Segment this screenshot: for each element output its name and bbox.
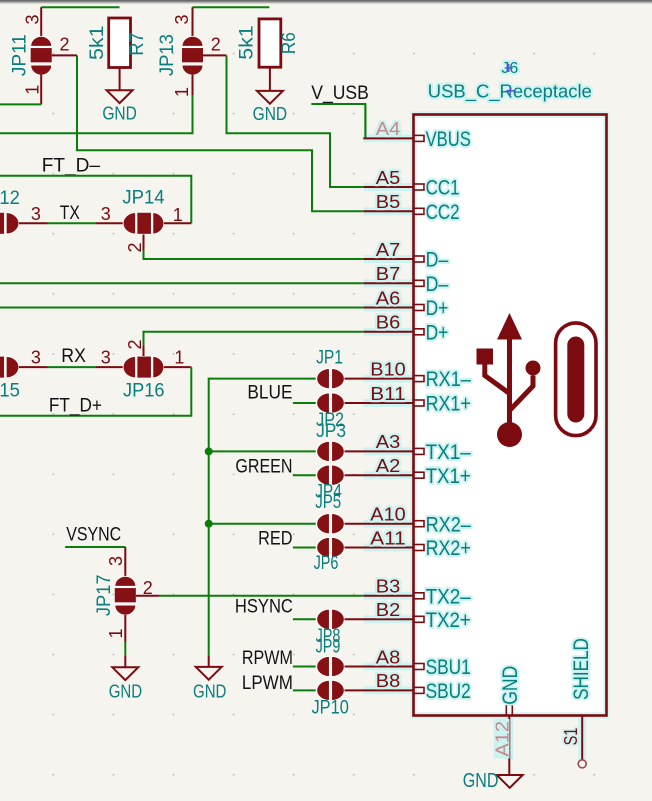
svg-text:TX: TX <box>60 202 80 224</box>
svg-text:RX: RX <box>61 345 86 367</box>
junction <box>205 447 213 455</box>
USB logo trident <box>485 334 533 424</box>
wire JP17 pin1 to GND <box>124 642 126 656</box>
unconnected end circle of S1 <box>578 760 586 768</box>
wire JP13 pin1 to left <box>0 95 193 133</box>
svg-text:2: 2 <box>211 35 221 55</box>
svg-text:A11: A11 <box>370 528 405 548</box>
pin A11 (RX2+) of J6 <box>345 547 414 549</box>
svg-text:CC2: CC2 <box>426 200 460 224</box>
wire V_USB corner redraw <box>364 104 366 138</box>
pin 3 of JP14 <box>96 222 123 224</box>
svg-text:5k1: 5k1 <box>236 25 257 59</box>
svg-text:GND: GND <box>102 103 137 123</box>
pin 3 of JP11 <box>40 7 42 37</box>
svg-text:BLUE: BLUE <box>247 382 292 404</box>
svg-text:3: 3 <box>31 204 41 224</box>
svg-text:1: 1 <box>23 85 43 95</box>
pin 1 of JP13 <box>192 75 194 95</box>
pin 3 of JP16 <box>96 366 123 368</box>
svg-text:JP10: JP10 <box>312 698 349 719</box>
svg-text:2: 2 <box>143 578 153 598</box>
svg-text:CC1: CC1 <box>426 176 460 200</box>
solder jumper JP6 <box>317 537 345 557</box>
wire R6 to GND <box>269 67 271 91</box>
pin 2 of JP14 <box>143 235 145 251</box>
solder jumper JP4 <box>317 465 345 485</box>
wire JP11 pin1 to left <box>0 103 41 105</box>
svg-text:1: 1 <box>173 205 183 225</box>
pin A5 (CC1) of J6 <box>363 186 413 188</box>
svg-text:GND: GND <box>193 682 226 702</box>
wire to D- B7 <box>0 282 363 284</box>
wire JP13 pin3 to R6 top <box>193 6 270 8</box>
solder jumper JP12 (partial at edge) <box>0 212 19 234</box>
anchor cross value <box>506 87 514 95</box>
wire FT_D- to JP14 pin1 <box>0 176 191 224</box>
svg-text:JP6: JP6 <box>314 553 339 574</box>
pin 1 of JP16 <box>164 366 192 368</box>
wire BLUE to JP2 <box>293 402 316 404</box>
wire V_USB to VBUS pin <box>311 104 365 138</box>
solder jumper JP17 <box>114 576 136 615</box>
solder jumper JP5 <box>317 514 345 534</box>
svg-text:TX1–: TX1– <box>426 440 471 464</box>
svg-text:RX2+: RX2+ <box>426 536 471 560</box>
wire VSYNC to JP17 <box>65 546 125 548</box>
svg-text:RX1–: RX1– <box>426 367 471 391</box>
svg-text:JP17: JP17 <box>94 575 115 617</box>
svg-text:JP15: JP15 <box>0 381 20 402</box>
wire JP11 pin3 to R7 top <box>41 6 119 8</box>
pin 2 of JP13 <box>203 54 227 56</box>
svg-text:A3: A3 <box>376 432 401 452</box>
svg-text:GND: GND <box>253 104 288 124</box>
ground stub <box>124 656 126 667</box>
pin B8 (SBU2) of J6 <box>345 689 414 691</box>
svg-text:A10: A10 <box>370 505 405 525</box>
svg-text:A2: A2 <box>376 456 401 476</box>
solder jumper JP2 <box>317 393 345 413</box>
svg-text:HSYNC: HSYNC <box>235 596 293 618</box>
pin A3 (TX1–) of J6 <box>345 450 414 452</box>
solder jumper JP11 <box>30 36 52 75</box>
svg-text:3: 3 <box>31 348 41 368</box>
wire JP17 pin2 to TX2- <box>160 595 364 597</box>
svg-text:2: 2 <box>125 339 145 349</box>
svg-text:A6: A6 <box>376 288 401 308</box>
svg-text:3: 3 <box>172 14 192 24</box>
svg-text:JP13: JP13 <box>157 34 178 76</box>
wire GREEN to JP4 <box>293 474 316 476</box>
svg-text:JP9: JP9 <box>316 636 341 657</box>
pin 3 of JP12 <box>19 222 48 224</box>
solder jumper JP10 <box>317 680 345 700</box>
junction <box>205 520 213 528</box>
pin S1 (SHIELD) of J6 <box>578 716 586 760</box>
solder jumper JP1 <box>317 368 345 388</box>
svg-text:A8: A8 <box>376 647 401 667</box>
svg-text:JP11: JP11 <box>10 34 31 76</box>
connector J6 body fill <box>414 115 607 716</box>
svg-text:SBU1: SBU1 <box>426 655 471 679</box>
pin 3 of JP17 <box>124 547 126 577</box>
svg-text:RPWM: RPWM <box>242 647 293 669</box>
svg-text:JP12: JP12 <box>0 188 20 209</box>
wire RED to JP6 <box>293 547 316 549</box>
svg-text:SHIELD: SHIELD <box>569 638 593 700</box>
pin A4 (VBUS) of J6 <box>363 137 413 139</box>
svg-text:B3: B3 <box>376 577 401 597</box>
svg-text:D–: D– <box>426 272 449 296</box>
pin B10 (RX1–) of J6 <box>345 378 414 380</box>
ground stub <box>208 656 210 667</box>
wire RX <box>48 366 96 368</box>
svg-text:A12: A12 <box>492 721 512 757</box>
svg-text:B11: B11 <box>370 384 405 404</box>
solder jumper JP13 <box>182 36 204 75</box>
connector J6 body outline <box>414 115 607 716</box>
pin B6 (D+) of J6 <box>363 331 413 333</box>
svg-text:GREEN: GREEN <box>235 456 292 478</box>
wire bus to JP3 <box>209 450 316 452</box>
pin A10 (RX2–) of J6 <box>345 523 414 525</box>
wire HSYNC to JP8 <box>293 618 316 620</box>
svg-text:TX2–: TX2– <box>426 584 471 608</box>
solder jumper JP14 <box>123 212 164 234</box>
resistor R7 <box>109 18 131 68</box>
svg-text:B10: B10 <box>370 359 405 379</box>
wire TX <box>48 222 96 224</box>
solder jumper JP16 <box>123 356 164 378</box>
pin 1 of JP14 <box>164 222 192 224</box>
ground below JP17 <box>112 667 138 680</box>
wire JP11 pin2 to CC2 <box>77 55 363 211</box>
svg-text:TX2+: TX2+ <box>426 608 471 632</box>
pin number A12 highlight box <box>494 719 510 759</box>
pin A2 (TX1+) of J6 <box>345 474 414 476</box>
svg-text:JP5: JP5 <box>315 492 341 513</box>
wire JP14 pin2 to D- A7 <box>144 250 364 259</box>
svg-text:V_USB: V_USB <box>311 82 369 104</box>
wire bus to JP5 <box>209 523 316 525</box>
solder jumper JP3 <box>317 441 345 461</box>
svg-text:SBU2: SBU2 <box>426 679 471 703</box>
pin 2 of JP17 <box>136 595 160 597</box>
ground below R6 <box>257 91 283 104</box>
pin A6 (D+) of J6 <box>363 307 413 309</box>
svg-text:3: 3 <box>106 556 126 566</box>
pin 1 of JP11 <box>40 75 42 105</box>
svg-text:RX2–: RX2– <box>426 512 471 536</box>
svg-text:TX1+: TX1+ <box>426 464 471 488</box>
svg-text:FT_D+: FT_D+ <box>49 394 102 416</box>
svg-text:1: 1 <box>106 628 126 638</box>
svg-text:A7: A7 <box>376 240 401 260</box>
svg-text:GND: GND <box>463 770 499 792</box>
svg-text:5k1: 5k1 <box>87 25 108 60</box>
ground below R7 <box>107 90 133 103</box>
svg-text:B8: B8 <box>376 671 401 691</box>
pin 2 of JP16 <box>143 346 145 356</box>
svg-text:1: 1 <box>174 347 184 367</box>
wire LPWM to JP10 <box>293 689 316 691</box>
svg-text:RX1+: RX1+ <box>426 392 471 416</box>
pin B5 (CC2) of J6 <box>363 210 413 212</box>
wire JP13 pin2 to CC1 <box>227 55 364 187</box>
wire to D+ A6 <box>0 307 363 309</box>
pin 3 of JP15 <box>19 366 48 368</box>
svg-text:GND: GND <box>498 666 522 705</box>
pin B7 (D–) of J6 <box>363 282 413 284</box>
svg-text:VSYNC: VSYNC <box>66 524 121 546</box>
pin B11 (RX1+) of J6 <box>345 402 414 404</box>
svg-text:FT_D–: FT_D– <box>42 155 100 177</box>
pin 3 of JP13 <box>192 7 194 37</box>
solder jumper JP15 (partial at edge) <box>0 356 19 378</box>
ground below A12 pin <box>497 775 523 788</box>
wire RPWM to JP9 <box>293 666 316 668</box>
svg-text:2: 2 <box>125 242 145 252</box>
solder jumper JP9 <box>317 656 345 676</box>
solder jumper JP8 <box>317 609 345 629</box>
svg-text:GND: GND <box>109 682 142 702</box>
svg-text:LPWM: LPWM <box>242 672 293 694</box>
svg-text:3: 3 <box>23 14 43 24</box>
pin A12 (GND) of J6 <box>508 716 510 776</box>
pin A7 (D–) of J6 <box>363 258 413 260</box>
svg-text:RED: RED <box>258 528 292 550</box>
svg-text:D+: D+ <box>426 296 449 320</box>
anchor cross J6 <box>505 64 513 72</box>
pin 1 of JP17 <box>124 615 126 642</box>
svg-text:B6: B6 <box>376 313 401 333</box>
wire JP16 pin2 to D+ B6 <box>144 332 364 346</box>
highlight halo of J6 body <box>414 115 607 716</box>
svg-text:R7: R7 <box>127 32 148 56</box>
wire GND bus <box>209 379 316 656</box>
svg-text:D–: D– <box>426 248 449 272</box>
svg-text:JP16: JP16 <box>123 381 165 402</box>
svg-text:1: 1 <box>172 87 192 97</box>
pin B2 (TX2+) of J6 <box>345 618 414 620</box>
svg-text:S1: S1 <box>561 728 581 746</box>
svg-text:2: 2 <box>60 35 70 55</box>
svg-text:VBUS: VBUS <box>426 127 471 151</box>
svg-text:B2: B2 <box>376 600 401 620</box>
svg-text:A4: A4 <box>376 119 401 139</box>
USB-C receptacle glyph <box>556 323 596 436</box>
svg-text:D+: D+ <box>426 320 449 344</box>
svg-text:JP14: JP14 <box>122 188 165 209</box>
svg-text:B7: B7 <box>376 264 401 284</box>
resistor R6 <box>259 19 281 67</box>
pin 2 of JP11 <box>52 54 77 56</box>
pin highlight halos <box>363 134 413 142</box>
ground below bus <box>196 667 222 680</box>
svg-text:R6: R6 <box>279 32 300 54</box>
svg-text:B5: B5 <box>376 192 401 212</box>
svg-text:3: 3 <box>101 204 111 224</box>
wire R7 to GND <box>119 68 121 91</box>
svg-text:JP1: JP1 <box>316 348 343 369</box>
pin A8 (SBU1) of J6 <box>345 666 414 668</box>
wire FT_D+ <box>0 367 191 416</box>
svg-text:A5: A5 <box>376 168 401 188</box>
svg-text:JP3: JP3 <box>316 421 346 442</box>
svg-text:3: 3 <box>101 348 111 368</box>
pin B3 (TX2–) of J6 <box>363 595 413 597</box>
